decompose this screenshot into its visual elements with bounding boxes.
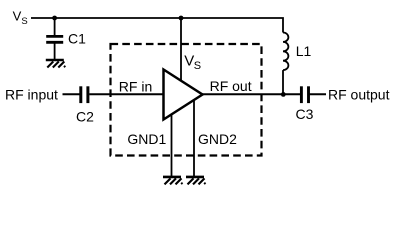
svg-text:V: V — [13, 9, 22, 24]
ground below C1 — [46, 60, 66, 68]
wire VS drop to amplifier — [180, 18, 182, 82]
node junction VS tap — [179, 16, 184, 21]
wire C1 top lead — [54, 18, 56, 35]
wire GND2 lead — [193, 99, 195, 176]
wire C2 to amplifier input — [89, 93, 163, 95]
node junction L1 tap — [281, 92, 286, 97]
svg-text:S: S — [194, 60, 201, 72]
svg-text:L1: L1 — [296, 43, 312, 59]
wire output lead — [310, 93, 327, 95]
svg-text:RF output: RF output — [328, 87, 390, 103]
node junction C1 tap — [52, 16, 57, 21]
ground GND2 — [186, 177, 206, 185]
inductor L1 — [283, 33, 288, 71]
svg-text:RF in: RF in — [119, 78, 152, 94]
ground GND1 — [163, 177, 183, 185]
svg-text:C3: C3 — [296, 106, 314, 122]
wire input lead — [63, 93, 80, 95]
capacitor C1 — [46, 36, 63, 42]
wire L1 bottom lead — [282, 70, 284, 94]
svg-text:S: S — [21, 16, 27, 27]
wire C1 bottom lead — [54, 43, 56, 59]
wire supply rail — [31, 18, 283, 33]
svg-text:GND2: GND2 — [198, 131, 237, 147]
capacitor C3 — [301, 86, 308, 103]
svg-text:C2: C2 — [76, 109, 94, 125]
svg-text:RF input: RF input — [5, 87, 58, 103]
amplifier triangle U1 — [164, 70, 203, 120]
svg-text:C1: C1 — [68, 31, 86, 47]
svg-text:RF out: RF out — [210, 78, 252, 94]
capacitor C2 — [81, 86, 88, 103]
wire GND1 lead — [171, 112, 173, 176]
wire amplifier output line — [203, 93, 301, 95]
amplifier block dashed outline — [111, 44, 262, 156]
svg-text:GND1: GND1 — [127, 131, 166, 147]
